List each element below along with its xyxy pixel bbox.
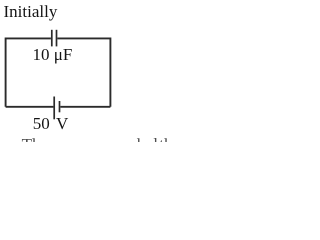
svg-text:d: d	[149, 135, 158, 142]
svg-text:50: 50	[33, 114, 50, 133]
svg-text:h: h	[137, 135, 146, 142]
svg-text:10 μF: 10 μF	[33, 45, 73, 64]
wire: bottom-left segment of loop	[6, 106, 54, 108]
svg-text:Initially: Initially	[4, 2, 58, 21]
wire: bottom-right segment of loop	[60, 106, 110, 108]
wire: right side of loop	[109, 38, 111, 107]
svg-text:The: The	[22, 135, 48, 142]
capacitor C (10 uF) left plate	[51, 30, 53, 47]
wire: top-right segment of loop	[57, 37, 110, 39]
svg-text:the: the	[159, 135, 180, 142]
wire: left side of loop	[5, 38, 7, 107]
capacitor C (10 uF) right plate	[56, 30, 58, 47]
battery V1 short plate (negative)	[59, 101, 61, 112]
wire: top-left segment of loop	[6, 37, 51, 39]
battery V1 long plate (positive)	[53, 97, 55, 120]
svg-text:V: V	[56, 114, 69, 133]
